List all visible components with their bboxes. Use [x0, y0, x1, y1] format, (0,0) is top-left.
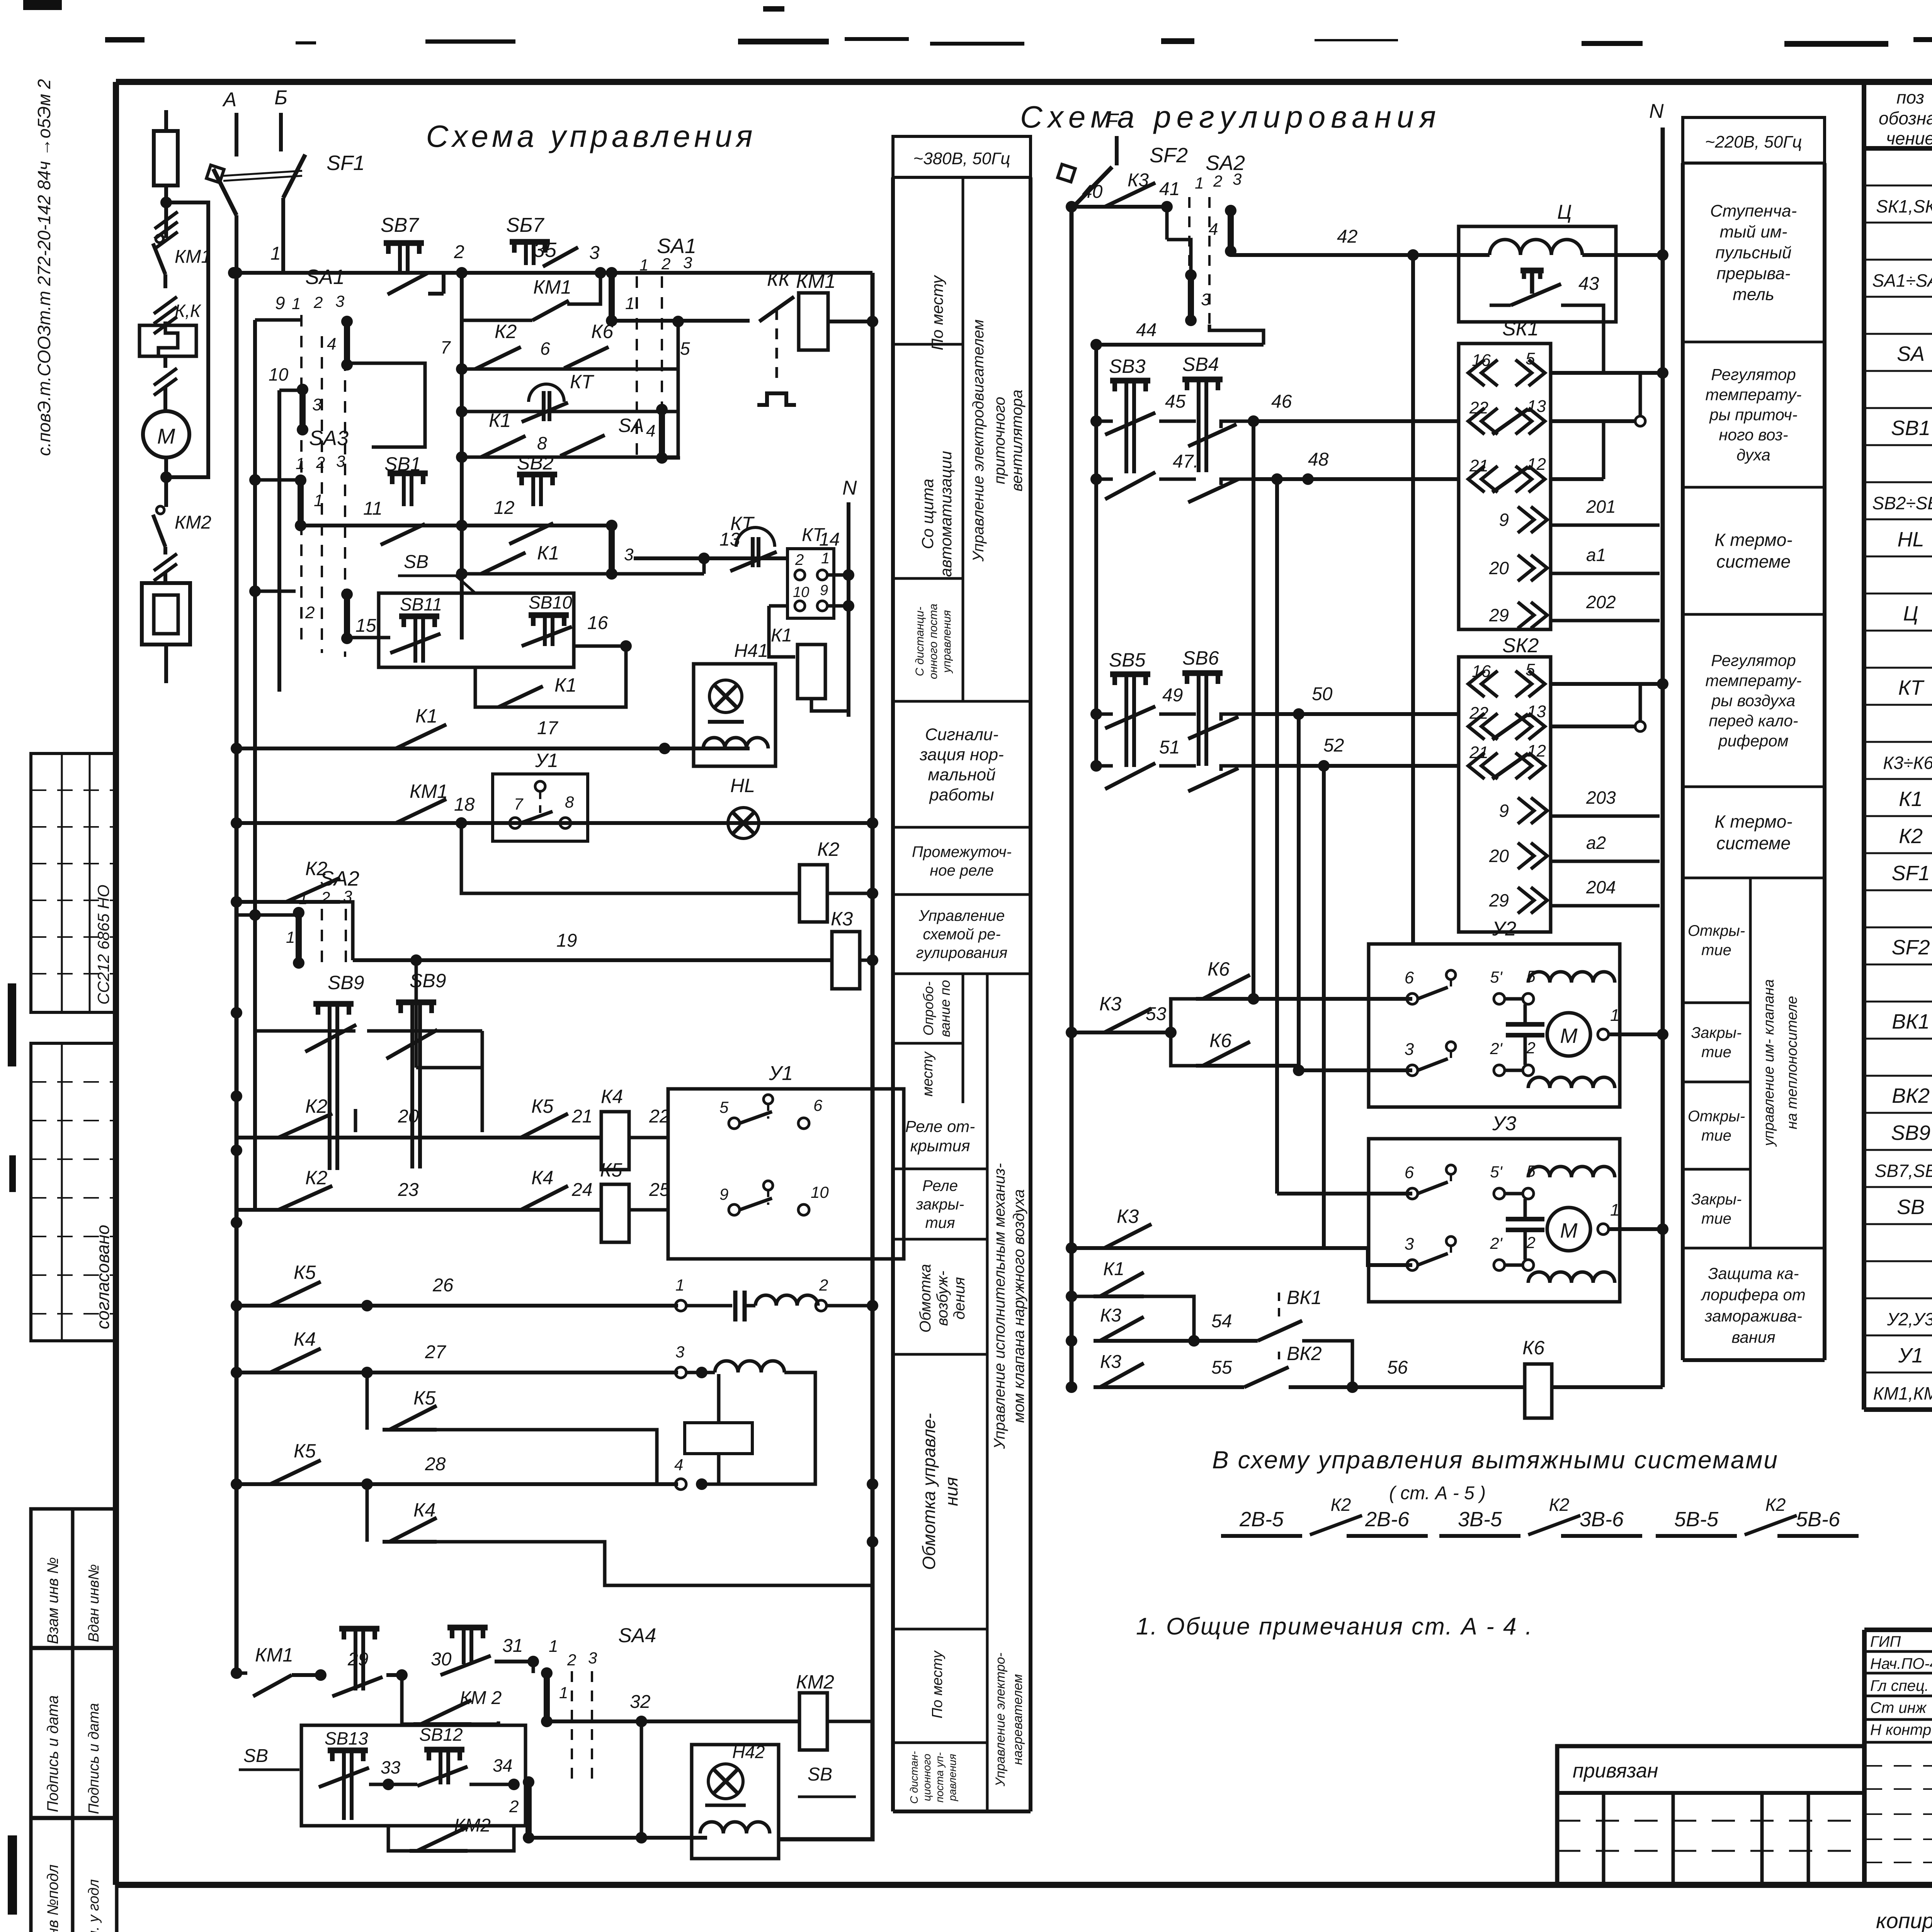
svg-text:46: 46 — [1271, 391, 1292, 412]
text strip 1 — [893, 136, 1031, 177]
svg-text:КТ: КТ — [802, 525, 825, 545]
svg-text:3: 3 — [683, 253, 692, 272]
svg-text:К2: К2 — [1765, 1495, 1786, 1515]
svg-text:5: 5 — [680, 338, 690, 359]
svg-text:лорифера от: лорифера от — [1700, 1286, 1805, 1304]
vertical V1 — [460, 273, 464, 639]
svg-text:56: 56 — [1387, 1357, 1408, 1378]
svg-text:Нач.ПО-4: Нач.ПО-4 — [1870, 1655, 1932, 1672]
svg-text:SВ13: SВ13 — [325, 1728, 368, 1748]
rung 27 + winding loop — [236, 1371, 678, 1374]
svg-text:Н контр: Н контр — [1870, 1721, 1931, 1738]
svg-text:возбуж-: возбуж- — [934, 1271, 951, 1326]
svg-text:1: 1 — [1610, 1201, 1619, 1219]
svg-text:Управление: Управление — [918, 907, 1005, 924]
svg-text:ВК2: ВК2 — [1892, 1084, 1930, 1107]
svg-text:К4: К4 — [294, 1328, 316, 1350]
svg-text:SВ7,SВ8: SВ7,SВ8 — [1875, 1161, 1932, 1181]
svg-text:НL: НL — [730, 775, 755, 796]
svg-text:SА1: SА1 — [305, 265, 345, 289]
svg-text:КТ: КТ — [1898, 676, 1925, 699]
svg-text:Реле: Реле — [922, 1177, 958, 1194]
svg-text:По месту: По месту — [928, 274, 946, 350]
SK1 box — [1459, 344, 1551, 629]
svg-text:М: М — [157, 424, 175, 448]
rung 29: KM1 SB8 SB8 SA4 — [236, 1673, 270, 1673]
rung 42 — [1231, 253, 1459, 257]
svg-text:3: 3 — [589, 243, 600, 263]
svg-text:4: 4 — [327, 335, 336, 354]
svg-text:Промежуточ-: Промежуточ- — [912, 844, 1012, 861]
svg-text:SВ10: SВ10 — [529, 592, 572, 612]
scan noise top band — [23, 0, 1932, 48]
svg-text:М: М — [1560, 1024, 1578, 1048]
svg-text:К5: К5 — [600, 1159, 622, 1181]
svg-text:7: 7 — [514, 795, 524, 813]
rung 47/48 — [1096, 478, 1113, 481]
svg-text:1: 1 — [1195, 174, 1204, 192]
svg-text:5В-5: 5В-5 — [1674, 1508, 1719, 1531]
svg-text:SВ: SВ — [243, 1746, 268, 1766]
svg-text:8: 8 — [565, 793, 574, 811]
SB box 2 (SB13/SB12) — [301, 1725, 526, 1826]
svg-text:12: 12 — [1527, 742, 1546, 760]
svg-text:SF1: SF1 — [327, 151, 365, 175]
svg-text:обозна-: обозна- — [1879, 108, 1932, 128]
svg-text:К3: К3 — [1117, 1206, 1139, 1227]
svg-text:К1: К1 — [537, 542, 559, 564]
svg-text:Ступенча-: Ступенча- — [1710, 201, 1797, 220]
svg-text:согласовано: согласовано — [93, 1225, 113, 1329]
svg-text:тый им-: тый им- — [1719, 222, 1787, 241]
svg-text:КМ1: КМ1 — [175, 247, 211, 267]
rung 11 — [301, 524, 612, 527]
cable hatches — [164, 202, 168, 238]
svg-text:с.повЭ.т.СООЗт.т 272-20-142 84: с.повЭ.т.СООЗт.т 272-20-142 84ч →о5Эм 2 — [34, 79, 54, 456]
svg-text:К2: К2 — [817, 838, 839, 860]
svg-text:дения: дения — [951, 1277, 968, 1320]
svg-text:автоматизации: автоматизации — [937, 451, 955, 577]
svg-text:55: 55 — [1211, 1357, 1232, 1378]
svg-text:2: 2 — [454, 242, 464, 262]
svg-text:SВ9: SВ9 — [328, 972, 364, 993]
svg-text:К,К: К,К — [175, 301, 202, 321]
svg-text:К2: К2 — [1549, 1495, 1570, 1515]
svg-text:КТ: КТ — [730, 513, 755, 534]
svg-text:Ц: Ц — [1903, 602, 1918, 625]
svg-text:49: 49 — [1162, 685, 1183, 706]
rung 19 + coil K3 — [353, 958, 832, 962]
svg-text:SВ1: SВ1 — [1891, 417, 1930, 440]
svg-text:SВ11: SВ11 — [400, 594, 442, 614]
svg-text:5': 5' — [1490, 968, 1503, 986]
svg-text:29: 29 — [1489, 605, 1509, 625]
svg-text:КМ2: КМ2 — [796, 1671, 834, 1693]
branch to K2 coil — [461, 823, 799, 893]
svg-text:СС212 6865 НО: СС212 6865 НО — [94, 884, 112, 1005]
svg-text:2: 2 — [316, 453, 325, 471]
svg-text:25: 25 — [649, 1180, 670, 1200]
button SB7 — [384, 240, 424, 246]
svg-text:температу-: температу- — [1706, 386, 1802, 404]
K5 sub contact — [366, 1372, 369, 1430]
svg-text:17: 17 — [537, 718, 559, 738]
stepper Ц box — [1459, 226, 1616, 322]
svg-text:тие: тие — [1701, 942, 1731, 959]
svg-text:202: 202 — [1586, 592, 1616, 612]
svg-text:6: 6 — [1405, 1163, 1414, 1182]
svg-text:ры воздуха: ры воздуха — [1711, 692, 1796, 710]
svg-text:N: N — [1649, 100, 1664, 122]
svg-text:1: 1 — [296, 454, 304, 473]
wire to KK and KM1 coil — [612, 319, 750, 323]
svg-text:К2: К2 — [1331, 1495, 1351, 1515]
svg-text:ное реле: ное реле — [930, 862, 994, 879]
svg-text:( ст. А - 5 ): ( ст. А - 5 ) — [1389, 1483, 1486, 1503]
svg-text:SВ4: SВ4 — [1182, 354, 1219, 375]
svg-text:поста уп-: поста уп- — [934, 1752, 946, 1803]
svg-text:КМ2: КМ2 — [175, 512, 211, 533]
svg-text:вание по: вание по — [937, 980, 953, 1037]
svg-text:месту: месту — [920, 1051, 936, 1097]
svg-text:1: 1 — [625, 294, 634, 313]
svg-text:SВ2÷SВ6: SВ2÷SВ6 — [1872, 493, 1932, 513]
svg-text:43: 43 — [1578, 274, 1599, 294]
lower K3 rung — [1071, 1246, 1097, 1250]
svg-text:20: 20 — [398, 1106, 419, 1127]
svg-text:По месту: По месту — [929, 1650, 946, 1719]
svg-text:34: 34 — [493, 1755, 512, 1776]
svg-text:Откры-: Откры- — [1688, 1108, 1745, 1125]
text strip 2 — [1683, 117, 1825, 163]
svg-text:3: 3 — [675, 1343, 684, 1361]
svg-text:Схема управления: Схема управления — [426, 119, 757, 153]
K3 53 rung with K6 contacts — [1071, 1031, 1097, 1034]
lamp box H41 — [694, 664, 776, 766]
lamp box H42 — [692, 1745, 779, 1859]
svg-text:28: 28 — [425, 1454, 446, 1475]
svg-text:32: 32 — [630, 1692, 650, 1712]
lamp HL — [728, 808, 759, 838]
svg-text:3: 3 — [343, 887, 352, 905]
svg-text:2: 2 — [1526, 1039, 1535, 1057]
svg-text:управления: управления — [940, 610, 953, 673]
svg-text:К5: К5 — [531, 1095, 553, 1117]
svg-text:29: 29 — [1489, 890, 1509, 910]
rung 17 — [236, 747, 750, 750]
svg-text:С дистанци-: С дистанци- — [913, 607, 926, 676]
svg-text:2': 2' — [1490, 1039, 1503, 1058]
svg-text:Н42: Н42 — [732, 1742, 765, 1762]
KT terminal box — [787, 549, 834, 618]
svg-text:работы: работы — [929, 785, 994, 804]
row K1/SA — [462, 456, 678, 459]
svg-text:духа: духа — [1736, 446, 1770, 464]
svg-text:КК: КК — [767, 269, 791, 290]
privyazan block — [1557, 1746, 1864, 1885]
svg-text:4: 4 — [1209, 220, 1218, 239]
svg-text:53: 53 — [1146, 1004, 1167, 1024]
svg-text:Подпись и дата: Подпись и дата — [86, 1703, 102, 1814]
svg-text:3: 3 — [1201, 290, 1211, 309]
svg-text:3: 3 — [588, 1649, 597, 1667]
svg-text:КМ1: КМ1 — [796, 270, 836, 293]
svg-text:К4: К4 — [601, 1086, 623, 1107]
svg-text:SВ5: SВ5 — [1109, 649, 1146, 671]
svg-text:У2,У3: У2,У3 — [1887, 1309, 1932, 1329]
svg-text:SF2: SF2 — [1150, 144, 1188, 167]
svg-text:ВК1: ВК1 — [1287, 1287, 1322, 1308]
svg-text:на теплоносителе: на теплоносителе — [1784, 996, 1800, 1129]
svg-text:1: 1 — [559, 1684, 568, 1702]
U2 — [1369, 944, 1620, 1107]
svg-text:Уч. у годл: Уч. у годл — [86, 1879, 102, 1932]
contact SB7 — [510, 239, 550, 245]
svg-text:2: 2 — [313, 293, 323, 311]
svg-text:1: 1 — [1610, 1006, 1619, 1025]
svg-text:Сигнали-: Сигнали- — [925, 725, 998, 744]
svg-text:КМ2: КМ2 — [454, 1815, 491, 1836]
svg-text:схемой ре-: схемой ре- — [923, 926, 1000, 943]
svg-text:Гл спец.: Гл спец. — [1870, 1677, 1929, 1694]
svg-text:SВ: SВ — [404, 552, 429, 572]
svg-text:2: 2 — [795, 551, 804, 568]
rung 32 + coil KM2 — [547, 1719, 799, 1723]
svg-text:А: А — [222, 88, 237, 111]
svg-text:мальной: мальной — [928, 765, 995, 784]
svg-text:9: 9 — [1499, 801, 1509, 821]
svg-text:Регулятор: Регулятор — [1711, 366, 1796, 384]
svg-text:Управление электродвигателем: Управление электродвигателем — [970, 320, 987, 562]
svg-text:3: 3 — [312, 395, 322, 414]
svg-text:Опробо-: Опробо- — [920, 981, 936, 1036]
svg-text:пульсный: пульсный — [1716, 243, 1792, 262]
svg-text:9: 9 — [719, 1185, 728, 1203]
svg-text:20: 20 — [1489, 558, 1509, 578]
svg-text:вания: вания — [1731, 1328, 1775, 1346]
drawing frame — [116, 79, 1932, 85]
KM1 aux contact — [462, 273, 532, 320]
K1/K3/VK1 54 — [1071, 1295, 1094, 1298]
svg-text:SВ3: SВ3 — [1109, 355, 1146, 377]
SK2 box — [1459, 657, 1551, 932]
row K1 lower — [462, 572, 704, 576]
svg-text:перед кало-: перед кало- — [1709, 712, 1798, 730]
svg-text:тие: тие — [1701, 1210, 1731, 1227]
left margin table 1 — [31, 753, 117, 1012]
svg-text:15: 15 — [355, 616, 376, 636]
SB box (SB11/SB10) — [379, 593, 574, 667]
coil KM1 — [799, 293, 828, 350]
svg-text:SF2: SF2 — [1891, 936, 1930, 959]
svg-text:2: 2 — [509, 1797, 519, 1816]
svg-text:204: 204 — [1586, 877, 1616, 897]
svg-text:тие: тие — [1701, 1044, 1731, 1061]
left bus (phase) — [235, 273, 239, 1673]
svg-text:КМ1,КМ2: КМ1,КМ2 — [1873, 1383, 1932, 1403]
svg-text:SК2: SК2 — [1502, 634, 1539, 657]
rung 20 — [236, 1136, 601, 1139]
svg-text:1. Общие примечания ст. А: 1. Общие примечания ст. А - 4 . — [1136, 1613, 1533, 1640]
svg-text:Управление электро-: Управление электро- — [993, 1653, 1008, 1787]
svg-text:18: 18 — [454, 794, 475, 815]
svg-text:30: 30 — [431, 1649, 452, 1670]
svg-text:3: 3 — [1405, 1235, 1414, 1253]
svg-text:1: 1 — [270, 243, 281, 264]
svg-text:закры-: закры- — [916, 1196, 964, 1213]
svg-text:Регулятор: Регулятор — [1711, 651, 1796, 670]
svg-text:10: 10 — [811, 1183, 829, 1201]
svg-text:11: 11 — [363, 498, 383, 519]
svg-text:~380В, 50Гц: ~380В, 50Гц — [913, 149, 1010, 168]
svg-text:Подпись и дата: Подпись и дата — [44, 1695, 61, 1812]
svg-text:Ст инж: Ст инж — [1870, 1699, 1927, 1716]
svg-text:Защита ка-: Защита ка- — [1708, 1264, 1799, 1282]
svg-text:У2: У2 — [1492, 918, 1516, 940]
svg-text:К6: К6 — [1522, 1337, 1544, 1359]
svg-text:9: 9 — [275, 293, 285, 313]
svg-text:2: 2 — [1213, 172, 1222, 190]
svg-text:10: 10 — [793, 584, 809, 600]
svg-text:2В-5: 2В-5 — [1239, 1508, 1284, 1531]
svg-text:2: 2 — [661, 255, 670, 273]
svg-text:ВК2: ВК2 — [1287, 1343, 1322, 1364]
svg-text:ры приточ-: ры приточ- — [1709, 406, 1797, 424]
KM2 aux contact — [402, 1675, 413, 1724]
svg-text:9: 9 — [1499, 510, 1509, 530]
SK1 right connections — [1551, 371, 1663, 375]
svg-text:SА2: SА2 — [320, 867, 359, 890]
svg-text:крытия: крытия — [910, 1137, 970, 1155]
svg-text:рифером: рифером — [1718, 732, 1788, 750]
svg-text:К3: К3 — [1100, 1305, 1121, 1326]
svg-text:SВ: SВ — [1897, 1196, 1925, 1219]
svg-text:К2: К2 — [305, 1095, 327, 1117]
svg-text:копировал: копировал — [1876, 1908, 1932, 1932]
SB9 row 2 — [415, 960, 418, 1068]
svg-text:SК1: SК1 — [1502, 318, 1539, 340]
SK2 right connections — [1551, 682, 1663, 686]
K3 55 VK2 56 K6 coil — [1094, 1385, 1144, 1389]
svg-text:К3: К3 — [1100, 1352, 1121, 1372]
svg-text:КМ1: КМ1 — [255, 1644, 293, 1666]
svg-text:Управление исполнительным ме: Управление исполнительным механиз- — [991, 1163, 1008, 1449]
svg-text:54: 54 — [1211, 1311, 1232, 1332]
rung 51/52 — [1096, 764, 1113, 768]
thermal relay KK — [139, 325, 196, 356]
svg-text:SВ: SВ — [808, 1764, 832, 1785]
rung 18: KM1, U1 box, HL — [236, 821, 872, 825]
svg-text:ционного: ционного — [921, 1754, 933, 1801]
svg-text:7: 7 — [440, 337, 451, 357]
svg-text:13: 13 — [1527, 702, 1546, 721]
svg-text:23: 23 — [398, 1180, 419, 1200]
svg-text:1: 1 — [299, 889, 308, 908]
svg-text:С дистан-: С дистан- — [908, 1751, 920, 1804]
svg-text:управление им- клапана: управление им- клапана — [1761, 979, 1777, 1147]
svg-text:51: 51 — [1159, 737, 1180, 758]
svg-text:SВ6: SВ6 — [1182, 647, 1219, 669]
svg-text:Обмотка управле-: Обмотка управле- — [919, 1413, 939, 1570]
svg-text:У1: У1 — [535, 750, 558, 771]
KM2 contact below SB box2 — [388, 1826, 410, 1851]
svg-text:5В-6: 5В-6 — [1796, 1508, 1840, 1531]
svg-text:К3: К3 — [831, 908, 853, 930]
svg-text:48: 48 — [1308, 449, 1329, 470]
svg-text:прерыва-: прерыва- — [1716, 264, 1790, 283]
svg-text:13: 13 — [1527, 397, 1546, 416]
svg-text:К термо-: К термо- — [1714, 811, 1792, 832]
K1 contact below SB box — [475, 667, 485, 707]
svg-text:К1: К1 — [1103, 1259, 1124, 1279]
left margin table 2 — [31, 1043, 117, 1341]
svg-text:Ц: Ц — [1557, 201, 1572, 223]
svg-text:47.: 47. — [1173, 451, 1199, 472]
svg-text:Закры-: Закры- — [1691, 1024, 1742, 1041]
svg-text:Н41: Н41 — [734, 641, 768, 661]
bypass loop wire — [166, 202, 208, 477]
svg-text:К1: К1 — [489, 410, 511, 431]
svg-text:3: 3 — [336, 452, 345, 470]
svg-text:1: 1 — [675, 1276, 684, 1294]
svg-text:1: 1 — [314, 491, 323, 510]
svg-text:3: 3 — [1405, 1040, 1414, 1059]
svg-text:N: N — [842, 477, 857, 499]
svg-text:К6: К6 — [591, 321, 613, 342]
svg-text:3В-5: 3В-5 — [1458, 1508, 1502, 1531]
svg-text:К термо-: К термо- — [1714, 530, 1792, 550]
svg-text:У1: У1 — [1898, 1344, 1923, 1367]
svg-text:Взам инв №: Взам инв № — [44, 1557, 61, 1644]
svg-text:системе: системе — [1716, 833, 1791, 853]
svg-text:12: 12 — [494, 498, 514, 518]
svg-text:2: 2 — [321, 888, 330, 906]
component table — [1862, 82, 1866, 1410]
svg-text:9: 9 — [820, 582, 828, 599]
svg-text:SВ1: SВ1 — [384, 453, 421, 475]
svg-text:SА4: SА4 — [618, 1624, 656, 1647]
svg-text:К3: К3 — [1099, 993, 1121, 1015]
SB9 row 1 — [255, 1029, 355, 1033]
svg-text:41: 41 — [1159, 179, 1180, 199]
row KT arc — [462, 410, 678, 413]
svg-text:Реле от-: Реле от- — [905, 1117, 975, 1136]
svg-text:2В-6: 2В-6 — [1365, 1508, 1410, 1531]
svg-text:КМ 2: КМ 2 — [460, 1688, 502, 1708]
svg-text:5: 5 — [1526, 349, 1535, 368]
svg-text:3В-6: 3В-6 — [1580, 1508, 1624, 1531]
svg-text:24: 24 — [571, 1180, 592, 1200]
svg-text:М: М — [1560, 1219, 1578, 1242]
svg-text:5': 5' — [1490, 1163, 1503, 1181]
svg-text:4: 4 — [646, 422, 655, 440]
svg-text:10: 10 — [269, 364, 289, 384]
svg-text:системе: системе — [1716, 551, 1791, 571]
coil K1 — [769, 606, 795, 657]
svg-text:мом клапана наружного возду: мом клапана наружного воздуха — [1010, 1189, 1027, 1423]
rung 1 — [234, 271, 872, 275]
U3 — [1369, 1139, 1620, 1302]
svg-text:ВК1: ВК1 — [1892, 1010, 1930, 1033]
svg-text:Обмотка: Обмотка — [917, 1264, 934, 1333]
svg-text:21: 21 — [1469, 743, 1488, 762]
svg-text:К2: К2 — [1899, 825, 1923, 848]
svg-text:20: 20 — [1489, 846, 1509, 866]
svg-text:Откры-: Откры- — [1688, 922, 1745, 939]
svg-text:К2: К2 — [495, 321, 517, 342]
svg-text:16: 16 — [1472, 662, 1491, 681]
svg-text:3: 3 — [624, 545, 634, 564]
